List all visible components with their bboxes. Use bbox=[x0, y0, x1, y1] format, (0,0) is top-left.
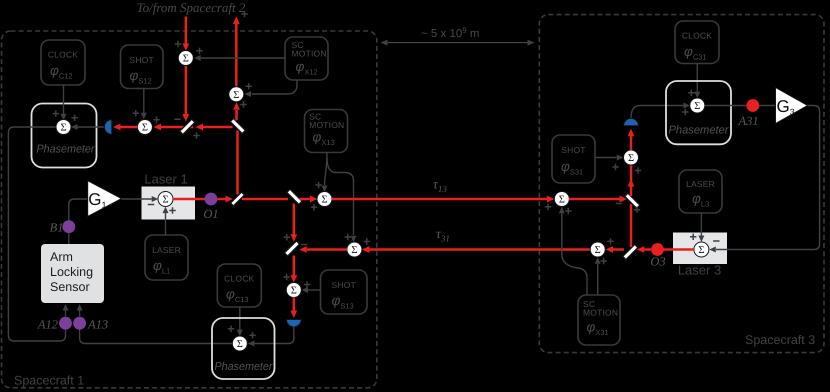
beam BS6 down to BS7 bbox=[630, 204, 633, 247]
sc motion X12 wire to summing node T12 bbox=[201, 57, 285, 59]
plus bbox=[284, 234, 290, 240]
plus bbox=[565, 208, 571, 214]
plus bbox=[53, 110, 59, 116]
svg-text:LASER: LASER bbox=[152, 245, 181, 255]
plus bbox=[612, 164, 618, 170]
plus bbox=[690, 234, 696, 240]
summing node phasemeter 3 bbox=[690, 98, 705, 113]
summing node laser 1 bbox=[158, 192, 173, 207]
laser noise box phi_L1 bbox=[145, 235, 188, 280]
node O1 bbox=[205, 193, 218, 206]
summing node phasemeter 1 bbox=[56, 120, 71, 135]
plus bbox=[304, 281, 310, 287]
summing node S31 bbox=[624, 150, 639, 165]
sc motion X13 wire to summing node X13a bbox=[325, 153, 328, 186]
clock C13 wire into phasemeter 2 bbox=[239, 307, 241, 330]
plus bbox=[240, 101, 246, 107]
phasemeter 2 box bbox=[212, 318, 275, 379]
beam splitter BS6 bbox=[625, 193, 640, 208]
beam BS6 up to summing node S31 bbox=[630, 165, 633, 196]
summing node laser 3 bbox=[694, 242, 709, 257]
phasemeter 3 box bbox=[666, 81, 731, 144]
laser 3 box bbox=[673, 233, 727, 265]
sc motion X13 wire to summing node X13b bbox=[327, 158, 354, 235]
beam BS5 down to summing node S13b bbox=[293, 256, 296, 276]
plus bbox=[545, 204, 551, 210]
svg-text:Locking: Locking bbox=[50, 265, 93, 279]
plus bbox=[634, 207, 640, 213]
svg-text:Σ: Σ bbox=[628, 153, 634, 164]
svg-text:A13: A13 bbox=[87, 318, 108, 332]
svg-text:MOTION: MOTION bbox=[292, 48, 327, 58]
svg-text:Σ: Σ bbox=[698, 245, 704, 256]
svg-text:SHOT: SHOT bbox=[129, 55, 153, 65]
amplifier G3 bbox=[776, 88, 808, 124]
input arrow into sensor from A13 bbox=[79, 310, 81, 317]
clock noise box phi_C13 bbox=[217, 264, 261, 307]
photodetector 3 output wire into phasemeter 3 bbox=[631, 106, 684, 119]
svg-text:Spacecraft 3: Spacecraft 3 bbox=[745, 333, 815, 347]
svg-text:CLOCK: CLOCK bbox=[682, 31, 712, 41]
photodetector 2 bbox=[286, 320, 301, 327]
plus bbox=[688, 90, 694, 96]
beam splitter BS7 bbox=[623, 244, 638, 259]
shot S13 wire into summing node bbox=[308, 289, 321, 291]
summing node T12 bbox=[178, 51, 193, 66]
photodetector 1 bbox=[104, 120, 111, 135]
inter-spacecraft distance arrow bbox=[386, 42, 530, 44]
svg-text:To/from Spacecraft 2: To/from Spacecraft 2 bbox=[137, 0, 246, 15]
beam O1 to beam splitter BS3 bbox=[217, 198, 225, 201]
svg-text:Σ: Σ bbox=[183, 54, 189, 65]
summing node phasemeter 2 bbox=[232, 336, 247, 351]
plus bbox=[241, 11, 247, 17]
beam splitter BS5 bbox=[284, 241, 299, 256]
shot noise box phi_S13 bbox=[321, 270, 368, 314]
spacecraft 3 dashed boundary bbox=[539, 15, 824, 353]
plus bbox=[169, 207, 175, 213]
photodetector 1 output wire into phasemeter bbox=[73, 126, 106, 128]
beam splitter BS1 bbox=[180, 119, 195, 134]
svg-text:SHOT: SHOT bbox=[561, 145, 585, 155]
wire amplifier G1 to laser 1 summing node bbox=[122, 198, 152, 200]
summing node shot S12 bbox=[137, 120, 152, 135]
svg-text:O3: O3 bbox=[650, 255, 665, 269]
svg-text:B1: B1 bbox=[50, 221, 64, 235]
beam summing node to photodetector 1 bbox=[121, 126, 138, 129]
plus bbox=[283, 274, 289, 280]
svg-text:Sensor: Sensor bbox=[50, 280, 90, 294]
minus bbox=[148, 204, 154, 206]
beam S13b down to photodetector 2 bbox=[293, 297, 296, 311]
clock noise box phi_C31 bbox=[675, 21, 719, 64]
spacecraft 1 dashed boundary bbox=[2, 31, 377, 388]
svg-text:LASER: LASER bbox=[686, 179, 715, 189]
beam BS1 to shot summing node bbox=[161, 126, 193, 129]
node A12 bbox=[59, 317, 72, 330]
beam arriving from spacecraft 2 bbox=[185, 17, 188, 45]
summing node X31b bbox=[590, 242, 605, 257]
plus bbox=[635, 167, 641, 173]
beam splitter BS2 to BS1 beam bbox=[203, 126, 233, 129]
minus bbox=[174, 118, 180, 120]
sc motion noise box phi_X31 bbox=[578, 295, 620, 345]
shot noise box phi_S12 bbox=[121, 45, 164, 89]
svg-text:Σ: Σ bbox=[595, 245, 601, 256]
feedback wire phasemeter 2 to node A13 bbox=[80, 323, 233, 344]
arm locking sensor box bbox=[41, 244, 104, 303]
svg-text:Phasemeter: Phasemeter bbox=[215, 361, 274, 373]
wire laser noise phi_L1 to laser 1 summing node bbox=[165, 213, 167, 235]
summing node X13a bbox=[317, 192, 332, 207]
svg-text:Phasemeter: Phasemeter bbox=[669, 125, 730, 137]
svg-text:~ 5 x 109 m: ~ 5 x 109 m bbox=[421, 26, 479, 40]
node O3 bbox=[651, 243, 664, 256]
minus bbox=[301, 244, 307, 246]
plus bbox=[600, 258, 606, 264]
svg-text:A31: A31 bbox=[738, 114, 759, 128]
svg-text:Phasemeter: Phasemeter bbox=[37, 144, 96, 156]
svg-text:CLOCK: CLOCK bbox=[224, 274, 254, 284]
beam laser 3 to node O3 bbox=[664, 248, 695, 251]
beam X31a to beam splitter BS6 bbox=[569, 198, 620, 201]
laser 1 box bbox=[142, 187, 196, 220]
svg-text:Σ: Σ bbox=[237, 339, 243, 350]
plus bbox=[311, 204, 317, 210]
node A13 bbox=[73, 317, 86, 330]
svg-text:Σ: Σ bbox=[559, 195, 565, 206]
beam O3 to beam splitter BS7 bbox=[644, 248, 651, 251]
node B1 bbox=[62, 220, 75, 233]
svg-text:Laser 3: Laser 3 bbox=[678, 263, 721, 278]
plus bbox=[249, 332, 255, 338]
amplifier G1 bbox=[88, 181, 122, 217]
clock C31 wire into phasemeter 3 bbox=[696, 64, 698, 92]
svg-text:Σ: Σ bbox=[291, 286, 297, 297]
shot S12 wire into summing node bbox=[143, 89, 145, 114]
beam S31 up to photodetector 3 bbox=[630, 136, 633, 150]
beam X13b to BS5 bbox=[307, 248, 347, 251]
laser noise box phi_L3 bbox=[679, 170, 722, 213]
svg-text:Σ: Σ bbox=[321, 195, 327, 206]
beam BS3 to BS4 bbox=[242, 198, 288, 201]
shot noise box phi_S31 bbox=[552, 135, 595, 183]
input arrow into sensor from A12 bbox=[65, 310, 67, 317]
beam splitter BS4 bbox=[287, 189, 302, 204]
beam splitter BS3 bbox=[230, 192, 244, 206]
feedback wire phasemeter 1 to node A12 bbox=[8, 127, 65, 341]
svg-text:Σ: Σ bbox=[233, 90, 239, 101]
svg-text:Σ: Σ bbox=[162, 195, 168, 206]
svg-text:A12: A12 bbox=[37, 318, 58, 332]
plus bbox=[682, 109, 688, 115]
phasemeter 1 box bbox=[32, 104, 97, 168]
beam splitter BS2 bbox=[230, 118, 245, 133]
beam BS4 to summing node X13a bbox=[300, 198, 310, 201]
minus bbox=[616, 203, 622, 205]
svg-text:MOTION: MOTION bbox=[309, 120, 344, 130]
sc motion X12 wire to summing node X12b bbox=[252, 80, 298, 94]
sc motion noise box phi_X12 bbox=[285, 37, 328, 80]
svg-text:Σ: Σ bbox=[694, 101, 700, 112]
sc motion noise box phi_X13 bbox=[305, 110, 348, 153]
beam laser 1 to node O1 bbox=[173, 198, 205, 201]
plus bbox=[71, 115, 77, 121]
plus bbox=[133, 110, 139, 116]
plus bbox=[193, 132, 199, 138]
summing node S13b bbox=[286, 283, 301, 298]
beam from summing node T12 down into BS1 bbox=[185, 65, 188, 114]
vertical beam BS3 up to BS2 bbox=[236, 131, 239, 195]
photodetector 3 bbox=[624, 118, 639, 125]
plus bbox=[175, 41, 181, 47]
svg-text:O1: O1 bbox=[203, 207, 218, 221]
svg-text:Σ: Σ bbox=[60, 123, 66, 134]
plus bbox=[246, 83, 252, 89]
clock C12 wire into phasemeter summing node bbox=[63, 85, 65, 114]
output wire phasemeter 3 to amplifier G3 bbox=[705, 105, 776, 107]
svg-text:Σ: Σ bbox=[142, 123, 148, 134]
summing node X13b bbox=[347, 242, 362, 257]
sc motion X31 wire to summing node X31a bbox=[562, 214, 587, 296]
beam BS2 up into summing node X12b bbox=[235, 110, 238, 120]
photodetector 2 output wire to phasemeter 2 bbox=[255, 326, 294, 343]
summing node X31a bbox=[554, 192, 569, 207]
wire laser noise phi_L3 to laser 3 bbox=[700, 213, 702, 236]
plus bbox=[153, 117, 159, 123]
beam BS7 to summing node X31b bbox=[613, 248, 624, 251]
svg-text:MOTION: MOTION bbox=[583, 307, 618, 317]
feedback wire G3 to laser 3 summing node bbox=[716, 106, 820, 250]
wire node B1 to amplifier G1 bbox=[69, 199, 87, 244]
svg-text:CLOCK: CLOCK bbox=[48, 50, 78, 60]
svg-text:Σ: Σ bbox=[351, 245, 357, 256]
node A31 bbox=[746, 99, 759, 112]
svg-text:SHOT: SHOT bbox=[331, 280, 355, 290]
beam tau31 from spacecraft 3 into summing node X13b bbox=[369, 248, 590, 251]
svg-text:Arm: Arm bbox=[50, 250, 73, 264]
shot S31 wire into summing node bbox=[595, 157, 617, 159]
beam tau13 to spacecraft 3 bbox=[332, 198, 547, 201]
sc motion X31 wire to summing node X31b bbox=[597, 264, 599, 295]
minus bbox=[713, 240, 719, 242]
plus bbox=[345, 234, 351, 240]
summing node X12b bbox=[229, 87, 244, 102]
plus bbox=[315, 182, 321, 188]
plus bbox=[196, 48, 202, 54]
svg-text:Laser 1: Laser 1 bbox=[144, 172, 187, 187]
plus bbox=[228, 326, 234, 332]
plus bbox=[364, 238, 370, 244]
clock noise box phi_C12 bbox=[41, 40, 85, 85]
beam departing to spacecraft 2 bbox=[235, 24, 238, 87]
svg-text:Spacecraft 1: Spacecraft 1 bbox=[14, 374, 84, 388]
plus bbox=[607, 238, 613, 244]
beam BS4 down to BS5 bbox=[293, 204, 296, 235]
